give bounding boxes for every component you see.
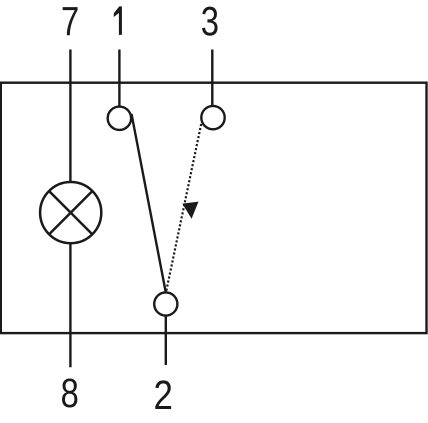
switch arm (closed position to contact 1) [132,114,166,293]
terminal label 7 [63,7,78,35]
common contact 2 [154,292,177,315]
lamp E1 [40,182,101,243]
terminal label 8 [62,378,77,407]
wire pin 8 lead [69,243,71,367]
switch arm alternate position (dotted, to contact 3) [166,124,201,292]
terminal label 2 [155,380,171,409]
terminal label 3 [202,7,218,36]
wire pin 2 lead [165,316,167,365]
fixed contact 1 [108,107,131,130]
actuation direction arrow [182,202,198,219]
terminal label 1 [114,6,122,35]
switch body outline [1,83,427,333]
wire pin 7 lead [69,50,71,183]
wire pin 1 lead [118,50,120,108]
fixed contact 3 [201,106,224,129]
wire pin 3 lead [211,50,213,107]
